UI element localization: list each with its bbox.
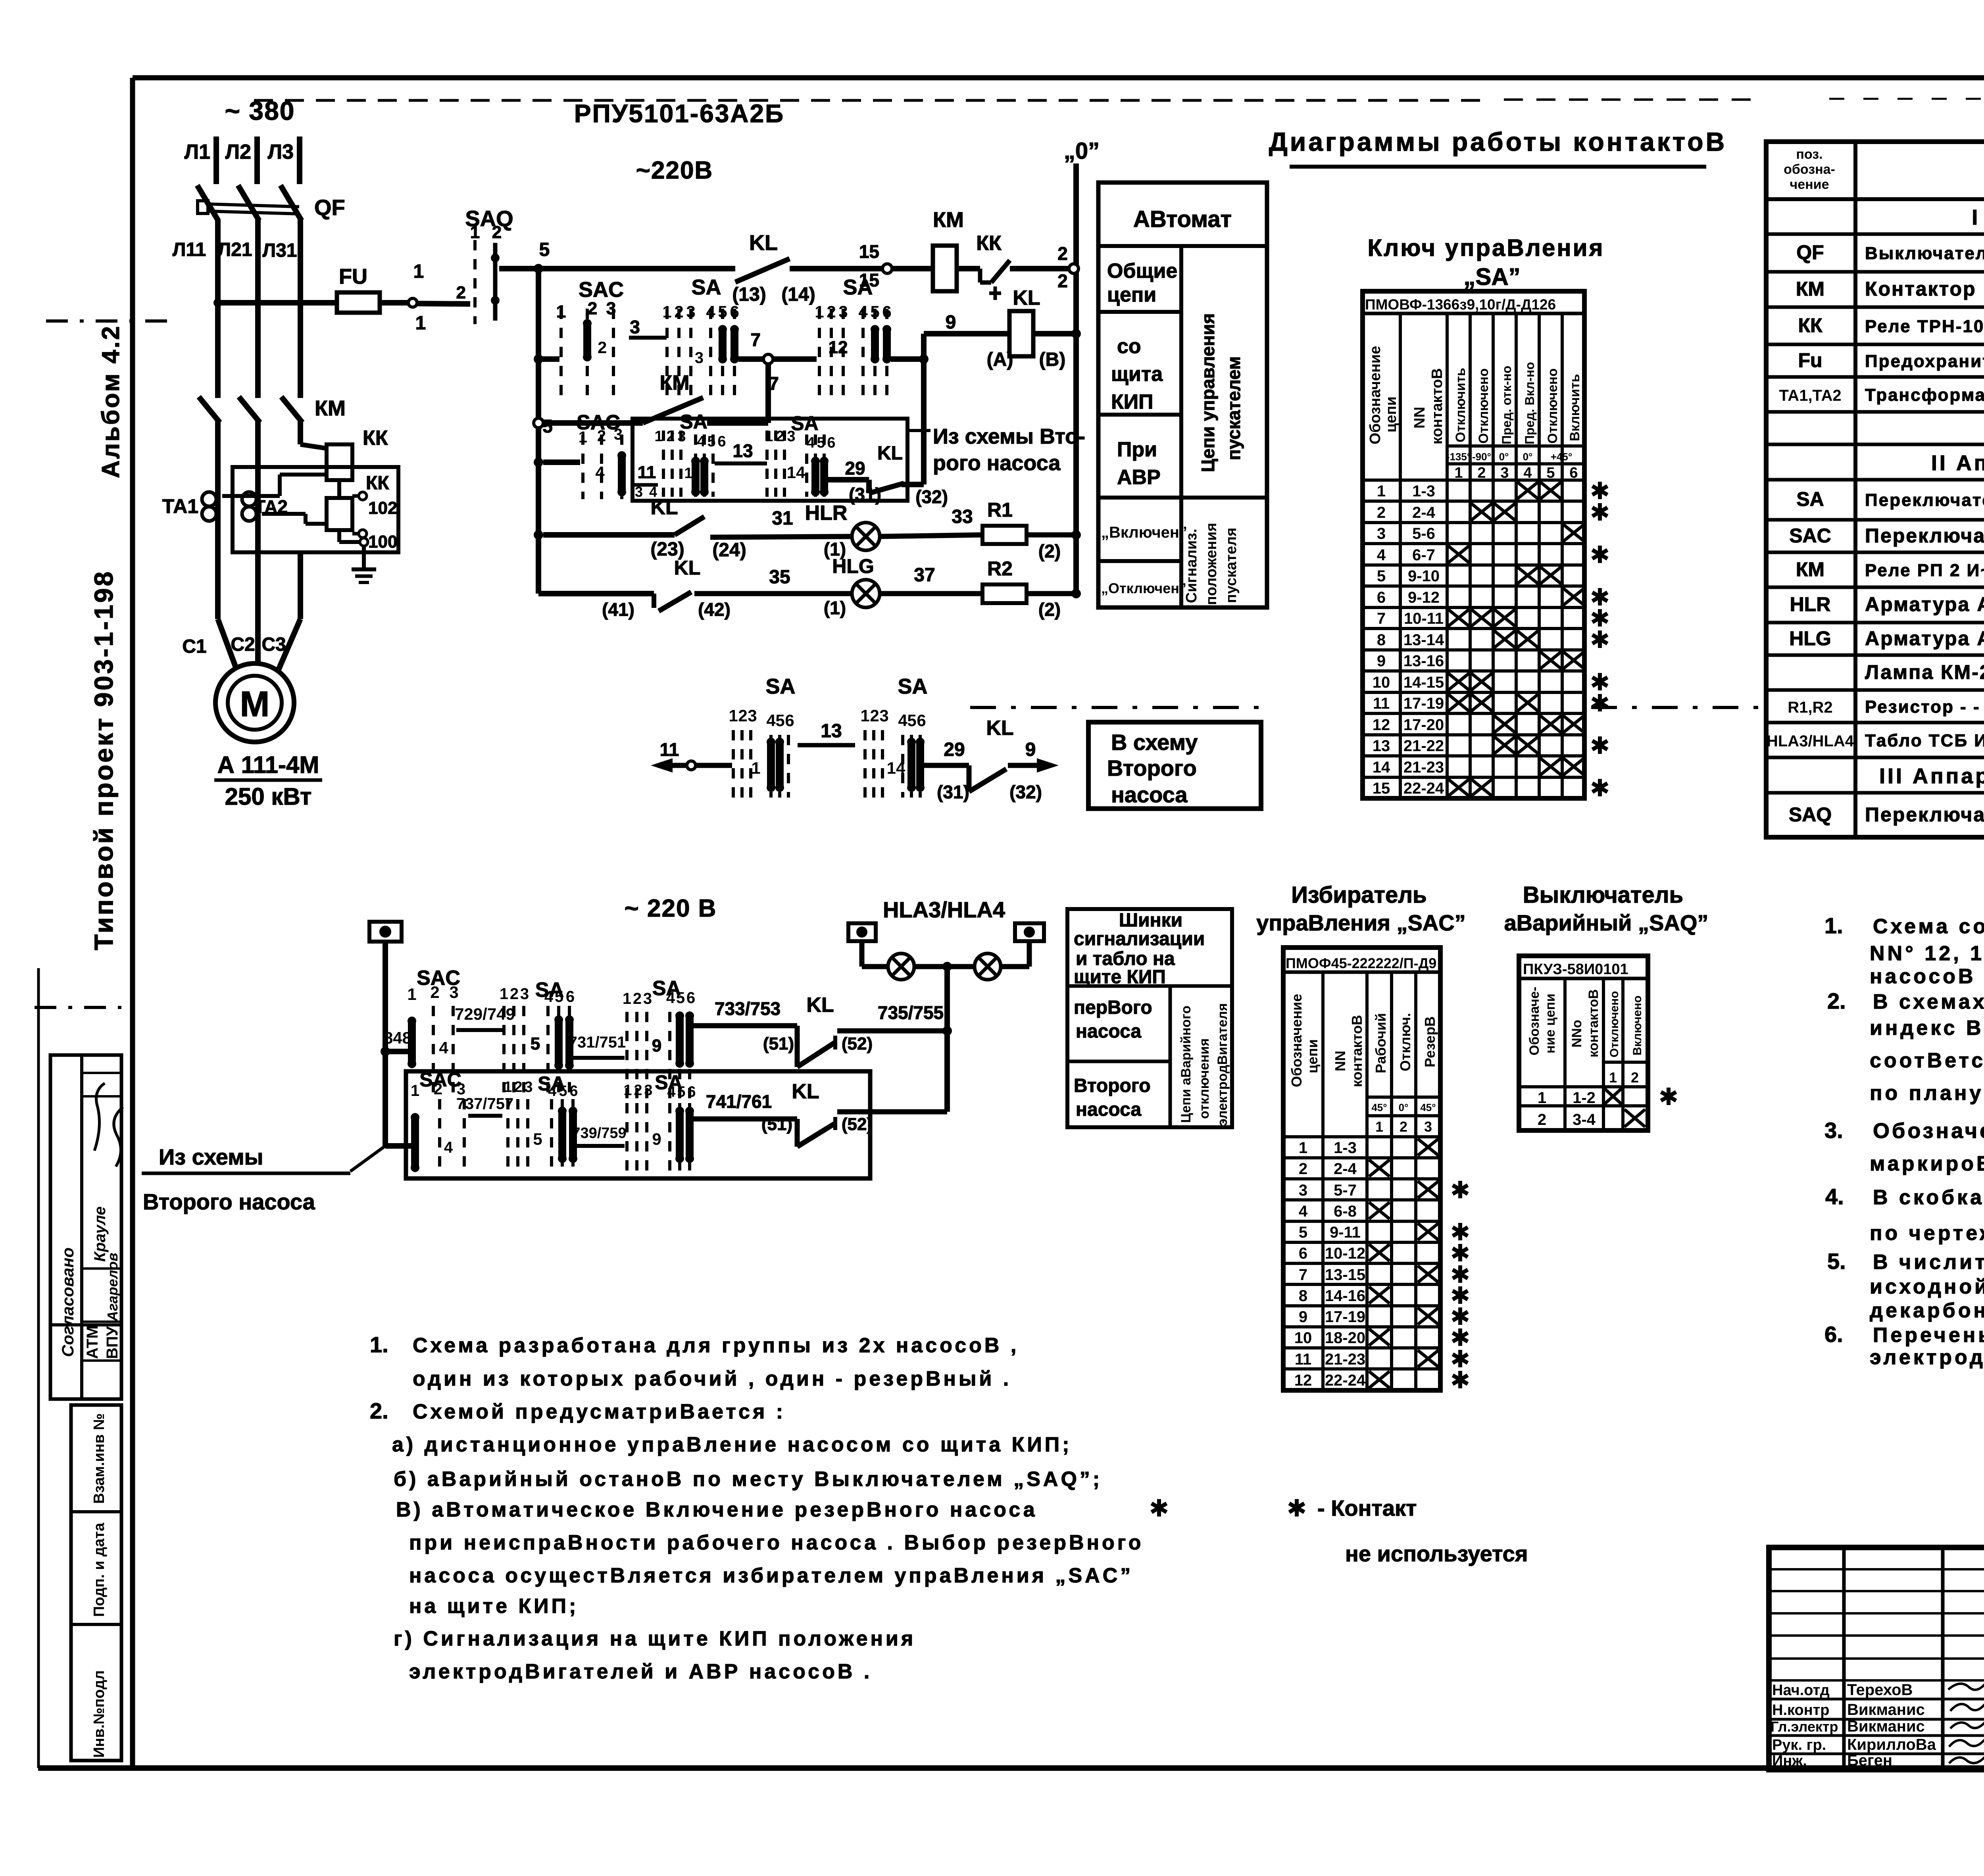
- margin dash-dot mark upper: [46, 319, 173, 323]
- wire phase2 below KM: [255, 421, 261, 552]
- svg-text:2: 2: [870, 706, 879, 725]
- terminal circle 11: [687, 761, 696, 770]
- svg-text:5: 5: [907, 711, 916, 730]
- svg-text:4: 4: [548, 1083, 556, 1099]
- relay contact KL (51)(52) row1: [797, 1043, 834, 1067]
- switch SA box group1 dashed 1-3: [663, 431, 681, 497]
- parts table data rows: [1766, 270, 1984, 274]
- svg-text:1.: 1.: [1824, 913, 1843, 938]
- lamp rail wire left: [862, 964, 889, 969]
- drawing frame top edge: [133, 75, 1984, 81]
- svg-text:Обозначение: Обозначение: [1288, 994, 1305, 1087]
- svg-text:3: 3: [524, 1079, 533, 1096]
- svg-text:6: 6: [566, 988, 575, 1005]
- svg-text:1: 1: [684, 465, 692, 482]
- svg-text:10: 10: [1294, 1329, 1312, 1347]
- svg-text:Отключ.: Отключ.: [1397, 1013, 1413, 1071]
- relay contact KL (23)(24): [675, 517, 704, 535]
- svg-text:- Контакт: - Контакт: [1317, 1495, 1417, 1520]
- wire mid to KL contact: [924, 763, 969, 768]
- svg-text:11: 11: [660, 739, 679, 760]
- SAC row3 contact bar: [617, 451, 626, 496]
- svg-text:ТерехоВ: ТерехоВ: [1847, 1681, 1913, 1699]
- wire bus to KM aux contact: [543, 420, 643, 426]
- annotation diagonal to из схемы: [350, 1146, 385, 1171]
- svg-text:21-23: 21-23: [1325, 1351, 1365, 1368]
- motor lead C2: [255, 552, 261, 665]
- relay contact KL (13)(14): [735, 259, 790, 282]
- svg-text:ПМОВФ-1366з9,10г/Д-Д126: ПМОВФ-1366з9,10г/Д-Д126: [1365, 296, 1556, 313]
- SA header band: [1363, 312, 1584, 315]
- svg-text:соотВетстВует номеру электро: соотВетстВует номеру электродВигателя: [1870, 1049, 1984, 1072]
- parts table column lines: [1853, 142, 1857, 837]
- svg-text:102: 102: [368, 498, 397, 518]
- svg-text:45°: 45°: [1371, 1101, 1387, 1113]
- svg-text:1: 1: [1377, 482, 1386, 500]
- svg-text:ТА1: ТА1: [162, 495, 198, 517]
- annotation underline: [142, 1172, 350, 1175]
- svg-text:2: 2: [597, 427, 606, 445]
- svg-text:4: 4: [595, 463, 605, 482]
- svg-text:Обозначе-: Обозначе-: [1527, 987, 1542, 1055]
- selector SAC row3 dashed lines: [583, 434, 622, 499]
- svg-text:SA: SA: [843, 275, 873, 299]
- svg-text:Переключатель ПМОВФ-1366з9,10г: Переключатель ПМОВФ-1366з9,10г/П-Д126: [1865, 490, 1984, 510]
- svg-text:22-24: 22-24: [1403, 780, 1444, 797]
- svg-text:KL: KL: [792, 1080, 819, 1103]
- SA numbers row: [1447, 462, 1584, 465]
- svg-text:1.: 1.: [370, 1332, 388, 1357]
- svg-text:1: 1: [765, 428, 773, 445]
- svg-text:на щите КИП;: на щите КИП;: [409, 1595, 579, 1618]
- svg-text:2: 2: [1057, 271, 1068, 291]
- svg-text:декарбонизироВанной Воды .: декарбонизироВанной Воды .: [1870, 1299, 1984, 1322]
- svg-text:щите КИП: щите КИП: [1074, 967, 1166, 988]
- svg-text:10-11: 10-11: [1404, 610, 1444, 627]
- terminal circle 102: [359, 492, 367, 500]
- svg-text:1: 1: [1299, 1139, 1307, 1157]
- SA lower2b contact bars: [675, 1107, 684, 1163]
- svg-text:12: 12: [1294, 1372, 1312, 1389]
- svg-text:37: 37: [914, 565, 935, 586]
- svg-text:КК: КК: [1798, 314, 1823, 336]
- svg-text:13: 13: [732, 440, 753, 461]
- SA lower2 contact bars: [558, 1107, 567, 1163]
- svg-text:Л21: Л21: [217, 239, 252, 260]
- svg-text:щита: щита: [1111, 363, 1163, 386]
- svg-text:9: 9: [1299, 1308, 1307, 1326]
- table SAC frame: [1283, 948, 1440, 1390]
- svg-text:(32): (32): [1009, 782, 1042, 802]
- switch SA lower2b dashed 1-3: [627, 1103, 647, 1175]
- lone asterisk reference mark: [1152, 1499, 1167, 1517]
- svg-text:2.: 2.: [370, 1398, 388, 1423]
- svg-text:6: 6: [1377, 589, 1386, 606]
- svg-text:5-6: 5-6: [1412, 525, 1435, 542]
- margin dash-dot mark lower: [35, 1006, 121, 1009]
- svg-text:Переключатель ПМОФ45-222222 /П: Переключатель ПМОФ45-222222 /П-Д9: [1865, 525, 1984, 547]
- svg-text:HLG: HLG: [832, 555, 874, 577]
- svg-text:2: 2: [827, 302, 836, 321]
- KK secondary wiring: [222, 494, 280, 498]
- ground symbol: [362, 546, 366, 569]
- svg-text:2: 2: [1538, 1111, 1546, 1128]
- emergency switch SAQ contact line: [493, 243, 498, 321]
- svg-text:2-4: 2-4: [1412, 504, 1436, 521]
- wire phase1 vertical: [215, 219, 221, 398]
- svg-text:1: 1: [623, 1082, 632, 1099]
- svg-text:5: 5: [531, 1034, 540, 1053]
- svg-text:5: 5: [555, 988, 563, 1005]
- svg-text:12: 12: [829, 338, 848, 357]
- motor lead C1: [215, 552, 221, 619]
- svg-text:Рабочий: Рабочий: [1373, 1013, 1389, 1073]
- svg-text:1: 1: [623, 990, 631, 1007]
- svg-text:Ключ упраВления: Ключ упраВления: [1368, 234, 1605, 261]
- svg-text:1: 1: [500, 985, 508, 1003]
- SAC numbers row: [1367, 1114, 1440, 1117]
- svg-text:обозна-: обозна-: [1784, 162, 1835, 177]
- svg-text:(2): (2): [1038, 541, 1061, 561]
- svg-text:4: 4: [1377, 546, 1386, 564]
- svg-text:1: 1: [815, 302, 824, 321]
- svg-text:5: 5: [817, 434, 825, 451]
- svg-text:б) аВарийный останоВ по мес: б) аВарийный останоВ по месту Выключател…: [394, 1468, 1102, 1491]
- svg-text:поз.: поз.: [1796, 147, 1823, 162]
- switch SA box group1 dashed 4-6: [696, 434, 713, 497]
- svg-text:5: 5: [542, 416, 553, 436]
- svg-text:11: 11: [638, 463, 656, 482]
- SAC contact bar row2: [583, 319, 592, 361]
- svg-text:13: 13: [821, 721, 842, 742]
- SAC column lines: [1321, 972, 1325, 1390]
- svg-text:KL: KL: [877, 443, 903, 464]
- svg-text:При: При: [1117, 438, 1157, 461]
- svg-text:В числителе указаны данные: В числителе указаны данные для насосоВ: [1873, 1251, 1984, 1274]
- svg-text:КИП: КИП: [1111, 390, 1153, 413]
- svg-text:Отключено: Отключено: [1608, 991, 1621, 1058]
- terminal box right 2: [1015, 923, 1044, 941]
- svg-text:739/759: 739/759: [572, 1125, 626, 1142]
- svg-text:KL: KL: [650, 496, 678, 519]
- svg-text:Второго насоса: Второго насоса: [143, 1189, 315, 1214]
- title block signature column lines: [1842, 1547, 1846, 1770]
- svg-text:5: 5: [718, 302, 727, 321]
- svg-text:3: 3: [1299, 1182, 1307, 1199]
- svg-text:HLR: HLR: [1790, 593, 1831, 615]
- svg-text:9: 9: [1025, 739, 1036, 760]
- svg-text:3: 3: [635, 484, 643, 500]
- svg-text:HLA3/HLA4: HLA3/HLA4: [1767, 732, 1854, 750]
- svg-text:SA: SA: [791, 412, 818, 434]
- thermal relay KK heater element 1: [327, 444, 352, 480]
- frame top rough scan line far right: [1829, 98, 1984, 100]
- svg-text:Отключено: Отключено: [1545, 368, 1560, 444]
- circuit breaker QF pole 2: [238, 185, 259, 221]
- svg-text:3: 3: [1424, 1119, 1432, 1135]
- svg-text:Обозначение: Обозначение: [1873, 1119, 1984, 1143]
- svg-text:14: 14: [887, 759, 905, 777]
- svg-text:отключения: отключения: [1197, 1038, 1212, 1119]
- svg-text:2: 2: [588, 299, 597, 318]
- svg-text:РПУ5101-63А2Б: РПУ5101-63А2Б: [574, 99, 784, 128]
- svg-text:Л31: Л31: [262, 240, 297, 261]
- svg-text:Рук. гр.: Рук. гр.: [1772, 1737, 1826, 1753]
- svg-text:(52): (52): [842, 1034, 873, 1053]
- SAQ numbers row: [1603, 1061, 1648, 1064]
- svg-text:14-16: 14-16: [1325, 1287, 1365, 1305]
- svg-text:8: 8: [1299, 1287, 1307, 1305]
- svg-text:29: 29: [845, 458, 865, 479]
- svg-text:исходной Воды , В знаменател: исходной Воды , В знаменателе - для насо…: [1870, 1275, 1984, 1298]
- svg-text:контактоВ: контактоВ: [1349, 1015, 1365, 1087]
- svg-text:17-19: 17-19: [1403, 695, 1444, 712]
- svg-text:Л11: Л11: [173, 239, 206, 260]
- svg-text:2: 2: [1400, 1119, 1407, 1135]
- switch SA lower1 dashed 4-6: [548, 1006, 569, 1099]
- left control bus: [536, 269, 541, 594]
- bracket in box bottom-left: [632, 483, 658, 487]
- svg-text:SA: SA: [898, 675, 927, 698]
- svg-text:(А): (А): [987, 349, 1013, 370]
- svg-text:Включено: Включено: [1631, 996, 1644, 1055]
- svg-text:SAC: SAC: [1789, 525, 1831, 547]
- svg-text:„Включен”: „Включен”: [1101, 524, 1187, 541]
- svg-text:перВого: перВого: [1074, 997, 1152, 1018]
- wire R1 to zero bus: [1027, 532, 1076, 538]
- step down row1: [795, 1026, 800, 1067]
- svg-text:1: 1: [1538, 1089, 1546, 1107]
- bracket wire 729/749: [456, 1028, 502, 1032]
- svg-text:КК: КК: [363, 427, 388, 450]
- svg-text:Викманис: Викманис: [1847, 1718, 1925, 1735]
- wire phase3 vertical: [298, 219, 303, 398]
- svg-text:г) Сигнализация на щите КИ: г) Сигнализация на щите КИП положения: [394, 1627, 916, 1650]
- wire mid to right arrow: [1008, 763, 1043, 768]
- svg-text:HLA3/HLA4: HLA3/HLA4: [883, 897, 1005, 922]
- svg-text:5: 5: [1299, 1224, 1307, 1241]
- svg-text:Из схемы Вто-: Из схемы Вто-: [933, 425, 1085, 448]
- svg-text:(24): (24): [712, 540, 746, 561]
- row HLR: tap from bus: [534, 530, 543, 540]
- svg-text:4: 4: [666, 989, 675, 1007]
- svg-text:17-20: 17-20: [1403, 716, 1444, 734]
- svg-text:6-8: 6-8: [1334, 1203, 1357, 1220]
- SAC degrees row: [1367, 1096, 1440, 1099]
- SA data rows grid: [1363, 479, 1584, 482]
- svg-text:21-23: 21-23: [1403, 759, 1444, 776]
- svg-text:насоса: насоса: [1076, 1021, 1141, 1042]
- svg-text:Инж.: Инж.: [1772, 1753, 1807, 1769]
- parts table header row: [1766, 197, 1984, 201]
- svg-text:1-3: 1-3: [1412, 482, 1435, 500]
- svg-text:Гл.электр: Гл.электр: [1771, 1718, 1838, 1735]
- svg-text:QF: QF: [314, 195, 345, 220]
- svg-text:4: 4: [444, 1139, 453, 1156]
- svg-text:11: 11: [1373, 695, 1390, 712]
- svg-text:В схемах соединений щитоВ: В схемах соединений щитоВ КИП и НКУ: [1873, 990, 1984, 1013]
- svg-text:4: 4: [667, 1084, 675, 1100]
- svg-text:4: 4: [766, 711, 776, 730]
- svg-text:по чертежам АТМ (см. разде: по чертежам АТМ (см. раздел АТМ ).: [1870, 1222, 1984, 1245]
- svg-text:по плану .: по плану .: [1870, 1082, 1984, 1105]
- svg-text:9: 9: [652, 1036, 661, 1055]
- svg-text:9: 9: [652, 1130, 661, 1148]
- svg-text:+45°: +45°: [1551, 451, 1573, 463]
- svg-text:741/761: 741/761: [706, 1091, 772, 1112]
- switch SA group2 dashed lines 1-3: [819, 309, 843, 401]
- svg-text:„SA”: „SA”: [1463, 263, 1520, 290]
- svg-text:2: 2: [430, 983, 439, 1001]
- svg-text:насосоВ декарбонизироВанной: насосоВ декарбонизироВанной Воды.: [1870, 965, 1984, 988]
- row KM aux: node circle on bus: [534, 418, 543, 428]
- svg-text:848: 848: [384, 1028, 411, 1047]
- svg-text:аВарийный „SAQ”: аВарийный „SAQ”: [1504, 910, 1709, 935]
- svg-text:III Аппараты у электродВига: III Аппараты у электродВигателя: [1879, 764, 1984, 788]
- title block signature rows: [1769, 1698, 1984, 1701]
- SA mid group1 contact bars: [767, 738, 775, 792]
- svg-text:Альбом 4.2: Альбом 4.2: [97, 325, 125, 478]
- svg-text:2: 2: [776, 428, 784, 445]
- bracket wire 739/759: [574, 1144, 625, 1148]
- SAQ asterisk: [1661, 1088, 1676, 1105]
- svg-text:ПКУЗ-58И0101: ПКУЗ-58И0101: [1523, 961, 1628, 978]
- fuse branch wire: [218, 300, 337, 306]
- margin table lower block: [71, 1405, 121, 1761]
- svg-text:чение: чение: [1790, 177, 1829, 192]
- svg-text:4: 4: [898, 711, 907, 730]
- svg-text:индекс В маркироВке аппаратоВ: индекс В маркироВке аппаратоВ и проВодоВ: [1870, 1017, 1984, 1040]
- svg-text:Викманис: Викманис: [1847, 1701, 1925, 1718]
- svg-text:Обозначение: Обозначение: [1367, 346, 1384, 444]
- svg-text:ТА1,ТА2: ТА1,ТА2: [1779, 387, 1841, 404]
- svg-text:21-22: 21-22: [1403, 737, 1444, 755]
- svg-text:6: 6: [730, 302, 739, 321]
- annotation pointer line: [907, 429, 930, 432]
- wire to SA mid group1: [696, 763, 732, 768]
- svg-text:(51): (51): [763, 1034, 794, 1053]
- wire fuse to terminal 1: [380, 300, 409, 306]
- wire box contacts to KL contact: [828, 477, 869, 482]
- svg-text:АВтомат: АВтомат: [1133, 206, 1232, 232]
- svg-text:0°: 0°: [1499, 451, 1509, 463]
- row1 output wire 733/753: [694, 1023, 797, 1028]
- svg-text:2: 2: [1299, 1160, 1307, 1178]
- signal lamp HLA4: [975, 953, 1001, 980]
- svg-text:6: 6: [686, 989, 695, 1007]
- svg-text:1: 1: [1609, 1069, 1617, 1086]
- svg-text:при неиспраВности рабочего н: при неиспраВности рабочего насоса . Выбо…: [409, 1531, 1144, 1554]
- svg-text:NNо: NNо: [1569, 1020, 1584, 1048]
- arrow to other pump circuit (left): [651, 758, 673, 773]
- svg-text:цепи: цепи: [1383, 396, 1400, 432]
- svg-text:2: 2: [492, 223, 502, 242]
- svg-text:Переключатель ПКУЗ-58И0101-У2: Переключатель ПКУЗ-58И0101-У2: [1865, 803, 1984, 826]
- svg-text:10-12: 10-12: [1325, 1245, 1365, 1262]
- svg-text:(52): (52): [842, 1115, 873, 1134]
- circuit breaker QF pole 3: [281, 185, 302, 221]
- wire to relay coil KL: [924, 331, 1009, 336]
- svg-text:5: 5: [677, 1084, 685, 1100]
- switch SA group2 dashed lines 4-6: [863, 309, 887, 401]
- svg-text:-135°: -135°: [1446, 451, 1471, 463]
- svg-text:упраВления „SAC”: упраВления „SAC”: [1256, 910, 1465, 935]
- svg-text:II Аппараты на щите КИ: II Аппараты на щите КИП: [1931, 451, 1984, 475]
- svg-text:С2: С2: [231, 634, 255, 655]
- svg-text:5-7: 5-7: [1334, 1182, 1357, 1199]
- wire KM coil to KK contact: [957, 266, 980, 271]
- svg-text:2.: 2.: [1827, 988, 1846, 1013]
- riser to KL coil row: [921, 334, 927, 359]
- svg-text:один из которых рабочий , оди: один из которых рабочий , один - резерВн…: [413, 1367, 1011, 1390]
- step down row2: [795, 1119, 800, 1147]
- switch SA lower2 dashed 1-3: [508, 1099, 528, 1174]
- wire R2 to zero bus: [1027, 591, 1076, 596]
- SA lower1b contact bars: [675, 1011, 684, 1068]
- svg-text:Схема разработана для группы: Схема разработана для группы из 2х насос…: [413, 1334, 1019, 1357]
- switch SA lower2b dashed 4-6: [670, 1103, 690, 1175]
- svg-text:KL: KL: [749, 231, 778, 255]
- svg-text:Подп. и дата: Подп. и дата: [91, 1522, 108, 1617]
- contactor KM pole 3: [281, 397, 302, 423]
- emergency switch SAQ position line: [473, 240, 477, 324]
- switch SA group1 dashed lines 4-6: [711, 309, 734, 401]
- switch SA mid group2 dashed 1-3: [865, 730, 882, 798]
- svg-text:18-20: 18-20: [1325, 1329, 1365, 1347]
- svg-text:3: 3: [643, 990, 652, 1007]
- svg-text:Нач.отд: Нач.отд: [1772, 1682, 1830, 1699]
- svg-text:Н.контр: Н.контр: [1772, 1702, 1830, 1718]
- svg-text:12: 12: [1373, 716, 1390, 734]
- svg-text:а) дистанционное упраВление: а) дистанционное упраВление насосом со щ…: [392, 1433, 1072, 1456]
- svg-text:4: 4: [439, 1038, 448, 1057]
- svg-text:6: 6: [1299, 1245, 1307, 1262]
- svg-text:В схему: В схему: [1111, 730, 1198, 755]
- relay contact KL (31)(32) mid: [969, 769, 1006, 792]
- thermal relay contact KK: [978, 269, 982, 283]
- stub to terminal 2: [1027, 941, 1032, 967]
- relay contact KL (41)(42): [652, 594, 656, 608]
- wire row2 to lamp riser: [837, 1109, 947, 1115]
- svg-text:2: 2: [674, 302, 683, 321]
- SA table column lines: [1399, 313, 1402, 798]
- svg-text:35: 35: [769, 567, 790, 588]
- SA group2 contact bars: [871, 325, 879, 363]
- SA degrees row: [1447, 444, 1584, 448]
- svg-text:KL: KL: [1013, 286, 1040, 309]
- box from-second-pump circuit: [632, 419, 907, 501]
- svg-text:5: 5: [533, 1130, 542, 1148]
- svg-text:5: 5: [870, 302, 879, 321]
- bracket wire 737/757: [468, 1114, 502, 1118]
- svg-text:1: 1: [654, 428, 663, 445]
- SA group1 contact bars: [718, 325, 727, 363]
- svg-text:11: 11: [1295, 1351, 1311, 1368]
- svg-text:4: 4: [544, 988, 554, 1005]
- svg-text:Типовой проект 903-1-198: Типовой проект 903-1-198: [89, 570, 118, 950]
- svg-text:Fu: Fu: [1798, 349, 1822, 371]
- wire (24) to lamp HLR: [710, 536, 852, 537]
- svg-text:Предохранитель ПРС-20-П Iпл.Вс: Предохранитель ПРС-20-П Iпл.Вст.16 А: [1865, 352, 1984, 371]
- drawing frame bottom edge: [38, 1765, 1984, 1771]
- svg-text:13-16: 13-16: [1403, 652, 1444, 670]
- svg-text:Трансформатор ТК-20 60: Трансформатор ТК-20 600/5 А: [1865, 385, 1984, 405]
- top rail wire to KL contact: [538, 266, 735, 271]
- note asterisk Контакт не используется: [1289, 1499, 1304, 1517]
- svg-text:Цепи аВарийного: Цепи аВарийного: [1178, 1005, 1194, 1123]
- bracket wire 731/751: [573, 1056, 625, 1060]
- node 5: [534, 264, 543, 273]
